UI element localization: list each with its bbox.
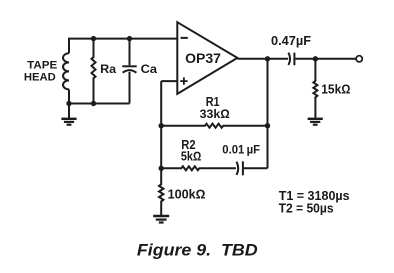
resistor R3 100k vertical (159, 168, 163, 215)
wire coil bottom (68, 89, 70, 103)
resistor R1 with wires (161, 124, 267, 128)
wire op-amp output (237, 58, 288, 60)
node Ra top (91, 36, 96, 41)
svg-text:T2 = 50µs: T2 = 50µs (279, 201, 334, 216)
wire bottom tape head (69, 103, 130, 105)
output terminal circle (356, 56, 362, 62)
svg-text:HEAD: HEAD (24, 72, 56, 84)
resistor R4 15k vertical with wires (313, 59, 317, 119)
svg-text:OP37: OP37 (185, 51, 221, 66)
svg-text:0.47µF: 0.47µF (271, 34, 311, 48)
op-amp plus input sign (180, 77, 187, 84)
svg-text:100kΩ: 100kΩ (168, 187, 206, 201)
resistor R2 with wire (161, 166, 236, 170)
node output feedback tap (265, 56, 270, 61)
svg-text:0.01 µF: 0.01 µF (222, 144, 260, 157)
node R1 right (265, 123, 270, 128)
svg-text:Ca: Ca (141, 62, 158, 76)
capacitor Ca (129, 39, 131, 66)
svg-text:TAPE: TAPE (27, 60, 57, 72)
wire top horizontal from tape head to op-amp inverting input (69, 39, 177, 54)
svg-text:5kΩ: 5kΩ (181, 149, 201, 163)
ground G1 tape head (68, 104, 70, 119)
node R2 left / 100k top (159, 166, 164, 171)
wire feedback left rail (160, 81, 162, 168)
wire non-inverting input (161, 80, 177, 82)
ground G2 100k (153, 215, 169, 217)
node 15k tap (313, 56, 318, 61)
resistor Ra (92, 39, 96, 104)
op-amp U1 triangle (177, 22, 237, 94)
op-amp minus input sign (181, 37, 188, 39)
wire right rail (267, 59, 269, 169)
wire cap to right rail (243, 167, 268, 169)
inductor L tape head coil (63, 53, 69, 89)
svg-text:33kΩ: 33kΩ (200, 107, 230, 121)
svg-text:Ra: Ra (100, 62, 116, 76)
node coil bottom / ground (66, 101, 71, 106)
svg-text:15kΩ: 15kΩ (321, 82, 350, 97)
wire cap to terminal (294, 58, 356, 60)
svg-text:Figure 9. TBD: Figure 9. TBD (137, 242, 258, 260)
node R1 left (159, 123, 164, 128)
node Ra bottom (91, 101, 96, 106)
node Ca top (127, 36, 132, 41)
capacitor C2 0.01uF plates (237, 162, 239, 175)
capacitor C1 0.47uF plates (288, 53, 290, 65)
ground G3 15k (308, 118, 323, 120)
